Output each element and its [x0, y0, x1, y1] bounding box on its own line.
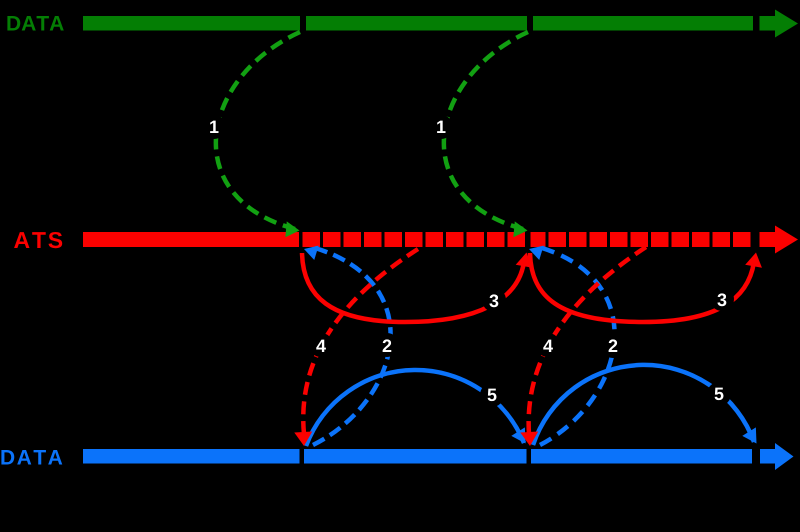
- green DATA timeline bar: [83, 16, 775, 31]
- blue bar junction gap 1: [300, 448, 305, 465]
- arrowhead of curve 5a at blue junction 2: [511, 427, 532, 447]
- label halo 2a: [375, 333, 399, 357]
- label 1b: [437, 121, 445, 133]
- label 3b: [717, 293, 726, 306]
- red bar right segment before arrowhead: [760, 232, 776, 247]
- blue bar junction gap 3: [752, 448, 760, 465]
- green bar junction gap 2: [527, 15, 533, 32]
- curve 2 instance b: blue dashed arc DATA(out)->ATS: [540, 248, 615, 445]
- label 2b: [609, 339, 618, 352]
- label halo 2b: [601, 334, 625, 358]
- arrowhead of curve 1b at ATS junction 2: [513, 221, 528, 238]
- arrowhead of curve 3b at red bar end: [745, 251, 764, 268]
- label ATS (red, middle-left): [14, 232, 62, 248]
- label halo 4b: [536, 333, 560, 357]
- label halo 4a: [309, 333, 333, 357]
- label halo 3a: [482, 288, 506, 312]
- label DATA (green, top-left): [7, 16, 63, 30]
- green timeline arrowhead: [775, 10, 798, 38]
- curve 4 instance b: red dashed ATS->DATA(out): [529, 247, 646, 434]
- curve 1 instance a: green dashed arc DATA->ATS: [216, 32, 300, 229]
- blue timeline arrowhead: [775, 443, 794, 470]
- red timeline arrowhead: [775, 226, 798, 254]
- label halo 5a: [480, 383, 504, 407]
- curve 5 instance b: blue solid arc DATA->DATA (bottom): [533, 365, 754, 445]
- arrowhead of curve 4a at blue junction 1: [294, 432, 313, 447]
- label 3a: [489, 294, 498, 307]
- label 4a: [316, 340, 326, 352]
- curve 3 instance b: red solid arc ATS->ATS: [530, 253, 754, 322]
- label 1a: [210, 121, 218, 133]
- blue DATA timeline bar: [83, 449, 775, 464]
- label DATA (blue, bottom-left): [1, 450, 62, 464]
- curve 1 instance b: green dashed arc DATA->ATS: [444, 32, 528, 229]
- arrowhead of curve 2a at ATS junction 1: [302, 242, 319, 260]
- arrowhead of curve 5b at blue junction 3: [742, 427, 763, 447]
- curve 3 instance a: red solid arc ATS->ATS: [302, 253, 524, 322]
- label 5a: [488, 389, 497, 402]
- red ATS timeline: solid left segment: [83, 232, 299, 247]
- label 2a: [383, 339, 392, 352]
- curve 2 instance a: blue dashed arc DATA(out)->ATS: [313, 248, 391, 445]
- label halo 1a: [202, 115, 226, 139]
- arrowhead of curve 1a at ATS junction 1: [285, 221, 300, 238]
- label halo 5b: [707, 382, 731, 406]
- curve 4 instance a: red dashed ATS->DATA(out): [303, 249, 418, 434]
- label 5b: [715, 388, 724, 401]
- red bar junction gap 2: [527, 231, 531, 248]
- green bar junction gap 1: [300, 15, 306, 32]
- label halo 3b: [710, 287, 734, 311]
- arrowhead of curve 2b at ATS junction 2: [527, 242, 544, 260]
- curve 5 instance a: blue solid arc DATA->DATA (bottom): [306, 370, 524, 446]
- arrowhead of curve 3a at ATS junction 2: [516, 251, 535, 268]
- arrowhead of curve 4b at blue junction 2: [520, 432, 539, 447]
- blue bar junction gap 2: [527, 448, 532, 465]
- green bar junction gap 3: [753, 15, 760, 32]
- red ATS timeline dashed segments: [303, 232, 321, 247]
- label 4b: [543, 340, 553, 352]
- label halo 1b: [429, 115, 453, 139]
